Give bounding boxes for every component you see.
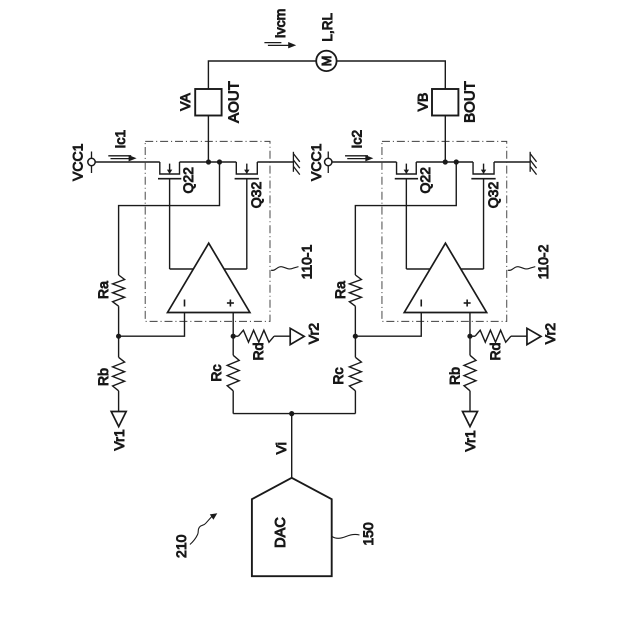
- amplifier block box 110-1: [145, 141, 270, 321]
- svg-text:L,RL: L,RL: [320, 13, 335, 42]
- svg-text:Ic2: Ic2: [349, 130, 365, 149]
- svg-text:DAC: DAC: [273, 517, 289, 548]
- ground (hatched) (110-2): [530, 152, 536, 175]
- junction dot non-inverting node (110-2): [467, 334, 472, 339]
- Vr2 reference symbol (110-1): [290, 328, 304, 344]
- svg-text:VCC1: VCC1: [308, 143, 324, 181]
- resistor Rb (110-1): [113, 336, 125, 411]
- junction dot non-inverting node (110-1): [231, 334, 236, 339]
- VCC1 terminal (110-2): [325, 152, 332, 174]
- svg-text:Ra: Ra: [95, 281, 111, 299]
- ground (hatched) (110-1): [293, 152, 299, 175]
- svg-text:Vr2: Vr2: [305, 323, 321, 344]
- op-amp (110-1): [168, 243, 250, 312]
- wire inverting input lead (110-2): [355, 313, 421, 337]
- svg-text:Q22: Q22: [417, 167, 433, 194]
- motor M (voice coil): [316, 51, 336, 71]
- Vr2 reference symbol (110-2): [527, 328, 541, 344]
- svg-text:Q32: Q32: [248, 182, 264, 209]
- transistor Q22 (110-1): [158, 162, 181, 269]
- resistor Ra (110-1): [113, 275, 125, 306]
- svg-text:Ra: Ra: [332, 281, 348, 299]
- current arrow Ivcm: [264, 42, 296, 48]
- svg-text:Rd: Rd: [487, 343, 503, 361]
- op-amp (110-2): [404, 243, 486, 312]
- VCC1 terminal (110-1): [88, 152, 95, 174]
- resistor Rd (110-1): [233, 330, 290, 342]
- transistor Q22 (110-2): [395, 162, 418, 269]
- svg-text:AOUT: AOUT: [225, 81, 242, 123]
- wire feedback node to Ra (110-2): [355, 162, 456, 275]
- wire Q22 to Q32 / output node (110-2): [416, 161, 473, 163]
- svg-text:Rb: Rb: [447, 367, 463, 385]
- svg-text:Rc: Rc: [208, 364, 224, 381]
- transistor Q32 (110-1): [235, 162, 259, 269]
- svg-text:Rb: Rb: [95, 368, 111, 386]
- wire feedback node to Ra (110-1): [119, 162, 220, 275]
- leader squiggle 110-1: [271, 267, 299, 271]
- current arrow Ic1: [108, 155, 136, 161]
- wire Q22 to Q32 / output node (110-1): [180, 161, 237, 163]
- resistor Rc (110-2): [349, 336, 361, 413]
- svg-text:Ivcm: Ivcm: [272, 9, 288, 39]
- resistor Rc (110-1): [227, 336, 239, 413]
- svg-text:BOUT: BOUT: [462, 81, 479, 123]
- resistor Ra (110-2): [349, 275, 361, 306]
- svg-text:M: M: [320, 56, 334, 66]
- junction dot output node (110-2): [443, 159, 448, 164]
- svg-text:150: 150: [360, 522, 376, 546]
- current arrow Ic2: [345, 155, 373, 161]
- resistor Rb (110-2): [464, 336, 476, 411]
- svg-text:Ic1: Ic1: [112, 130, 128, 149]
- svg-text:VA: VA: [177, 93, 193, 111]
- terminal box VA/AOUT: [195, 89, 221, 116]
- wire inverting input lead (110-1): [119, 313, 185, 337]
- svg-text:Q32: Q32: [485, 182, 501, 209]
- wire Vi to DAC: [291, 414, 293, 478]
- wire gate bus (110-2): [406, 268, 483, 270]
- wire Ra to inverting node (110-1): [118, 306, 120, 336]
- wire Ra to inverting node (110-2): [354, 306, 356, 336]
- leader squiggle 110-2: [508, 267, 536, 271]
- wire VCC to Q22 (110-1): [95, 161, 160, 163]
- junction dot feedback node (110-1): [217, 159, 222, 164]
- svg-text:110-1: 110-1: [298, 244, 314, 279]
- wire Vi bus: [233, 413, 355, 415]
- resistor Rd (110-2): [470, 330, 527, 342]
- svg-text:Vr1: Vr1: [462, 430, 478, 451]
- Vr1 reference symbol (110-2): [463, 412, 478, 427]
- svg-text:VB: VB: [415, 93, 431, 112]
- svg-text:Q22: Q22: [180, 167, 196, 194]
- leader squiggle 150: [332, 534, 360, 538]
- wire non-inverting input lead (110-2): [469, 313, 471, 337]
- reference arrow 210: [190, 513, 217, 544]
- terminal box VB/BOUT: [432, 89, 458, 116]
- svg-text:Vr1: Vr1: [111, 429, 127, 450]
- wire AOUT box to top wire: [208, 61, 316, 162]
- svg-text:Rc: Rc: [330, 367, 346, 384]
- wire non-inverting input lead (110-1): [232, 313, 234, 337]
- Vr1 reference symbol (110-1): [111, 412, 126, 427]
- junction dot feedback node (110-2): [454, 159, 459, 164]
- DAC block 150: [252, 478, 332, 576]
- junction dot output node (110-1): [206, 159, 211, 164]
- wire Q32 to ground (110-1): [257, 161, 293, 163]
- svg-text:Vi: Vi: [273, 442, 289, 454]
- wire Q32 to ground (110-2): [494, 161, 530, 163]
- svg-text:210: 210: [173, 534, 189, 558]
- amplifier block box 110-2: [382, 141, 507, 321]
- svg-text:VCC1: VCC1: [69, 143, 85, 181]
- svg-text:110-2: 110-2: [535, 244, 551, 279]
- transistor Q32 (110-2): [471, 162, 495, 269]
- junction dot node Vi: [289, 411, 294, 416]
- junction dot inverting node (110-1): [116, 334, 121, 339]
- wire gate bus (110-1): [170, 268, 247, 270]
- junction dot inverting node (110-2): [353, 334, 358, 339]
- wire motor to BOUT box: [337, 61, 446, 162]
- svg-text:Rd: Rd: [250, 343, 266, 361]
- svg-text:Vr2: Vr2: [542, 323, 558, 344]
- wire VCC to Q22 (110-2): [332, 161, 397, 163]
